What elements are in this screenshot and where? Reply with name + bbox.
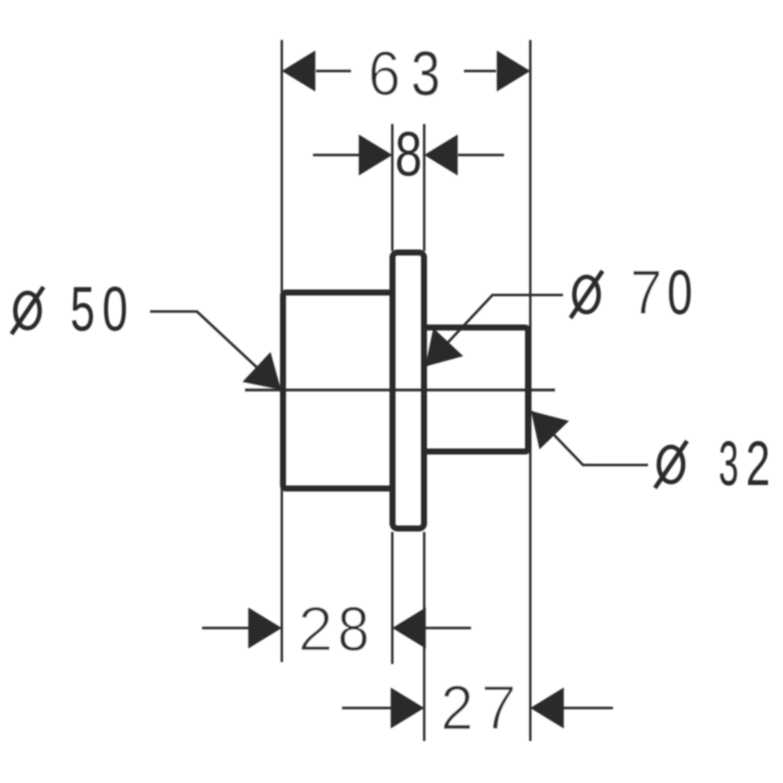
arrowhead dim 8 left	[359, 135, 393, 176]
arrowhead dim 27 right	[530, 688, 564, 729]
extension line flange right face lower	[423, 532, 425, 741]
dim 28 tail left	[202, 627, 249, 629]
label text 70	[633, 270, 691, 315]
dim 63 line right tail	[464, 70, 496, 72]
dim text 8	[397, 132, 420, 177]
extension line left (x=282, 63/28 dims)	[281, 40, 283, 662]
extension line flange right face upper	[423, 124, 425, 251]
body: right spigot (diameter 32)	[424, 328, 528, 452]
dim 63 line left tail	[316, 70, 351, 72]
dim text 63	[371, 51, 438, 96]
dim text 27	[444, 685, 514, 729]
extension line right (x=530, 63/27 dims)	[529, 40, 531, 741]
dim 28 tail right	[425, 627, 471, 629]
label text 50	[72, 287, 126, 332]
diameter symbol for 70	[571, 271, 603, 318]
arrowhead dim 8 right	[424, 135, 458, 176]
body: left cylinder (diameter 50)	[283, 293, 393, 489]
centerline	[245, 389, 555, 392]
arrowhead dim 28 left	[248, 608, 281, 649]
leader line for diameter 32	[532, 412, 649, 466]
arrowhead leader diameter 50	[243, 352, 282, 390]
dim text 28	[301, 607, 367, 652]
dim 27 tail right	[563, 707, 613, 709]
dim 27 tail left	[342, 707, 391, 709]
arrowhead dim 63 left	[282, 51, 316, 92]
extension line flange left face upper	[391, 124, 393, 251]
leader line for diameter 70	[425, 295, 563, 367]
arrowhead dim 63 right	[497, 51, 531, 92]
diameter symbol for 32	[655, 441, 687, 488]
body: flange plate (diameter 70, width 8)	[393, 253, 425, 529]
label text 32	[720, 441, 768, 486]
extension line flange left face lower	[391, 532, 393, 664]
arrowhead leader diameter 70	[425, 328, 463, 367]
dim 8 tail left	[313, 154, 359, 156]
leader line for diameter 50	[150, 312, 281, 390]
arrowhead dim 28 right	[392, 608, 426, 649]
dim 8 tail right	[458, 154, 504, 156]
diameter symbol for 50	[12, 287, 44, 334]
arrowhead dim 27 left	[391, 688, 425, 729]
arrowhead leader diameter 32	[531, 411, 569, 449]
